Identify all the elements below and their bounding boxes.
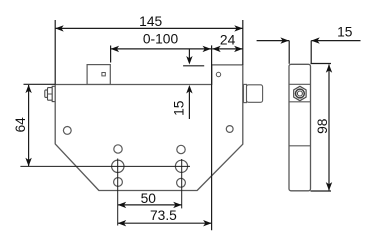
svg-text:15: 15 <box>171 100 186 116</box>
svg-text:0-100: 0-100 <box>143 32 179 47</box>
svg-text:73.5: 73.5 <box>150 208 177 223</box>
svg-text:24: 24 <box>220 33 236 48</box>
svg-text:15: 15 <box>337 24 353 39</box>
svg-text:50: 50 <box>141 191 157 206</box>
svg-text:64: 64 <box>13 117 28 133</box>
svg-text:98: 98 <box>315 118 330 134</box>
svg-text:145: 145 <box>139 14 162 29</box>
